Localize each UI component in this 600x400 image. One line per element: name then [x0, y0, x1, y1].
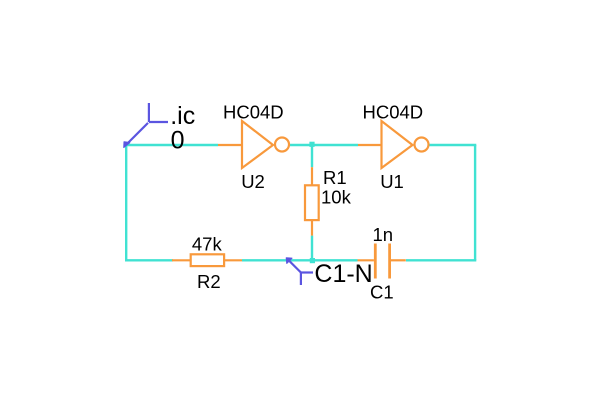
capacitor C1	[358, 244, 406, 279]
wire R1 top	[311, 145, 313, 167]
resistor R1	[305, 167, 319, 235]
resistor R2	[172, 254, 242, 266]
svg-text:HC04D: HC04D	[223, 101, 284, 122]
flag C1-N arrowhead	[286, 258, 292, 264]
svg-text:U1: U1	[380, 171, 404, 192]
wire top-left	[125, 144, 218, 146]
wire U2 out to U1 in	[289, 144, 358, 146]
svg-text:C1-N: C1-N	[314, 260, 372, 288]
svg-text:1n: 1n	[373, 224, 394, 245]
wire left rail	[125, 145, 127, 262]
inverter U1 (HC04D)	[358, 121, 429, 168]
svg-text:HC04D: HC04D	[363, 101, 424, 122]
svg-text:C1: C1	[370, 282, 394, 303]
wire U1 out to right rail	[429, 144, 477, 146]
svg-text:47k: 47k	[192, 233, 223, 254]
svg-text:R1: R1	[323, 167, 347, 188]
svg-text:10k: 10k	[321, 187, 352, 208]
svg-text:R2: R2	[197, 271, 221, 292]
flag node C1-N	[290, 261, 314, 285]
svg-text:0: 0	[171, 126, 185, 154]
flag .ic arrowhead	[124, 142, 130, 148]
wire R1 bottom	[311, 236, 313, 261]
wire bottom right	[406, 259, 476, 261]
flag .ic directive	[127, 103, 168, 144]
inverter U2 (HC04D)	[218, 121, 289, 168]
wire R2 to C1N node	[242, 259, 312, 261]
node junction top (R1/U1 net)	[309, 142, 314, 147]
node junction bottom (C1-N net)	[310, 258, 315, 263]
wire bottom left	[125, 259, 173, 261]
wire right rail	[474, 145, 476, 260]
svg-text:U2: U2	[241, 171, 265, 192]
wire C1N node to C1	[312, 259, 358, 261]
